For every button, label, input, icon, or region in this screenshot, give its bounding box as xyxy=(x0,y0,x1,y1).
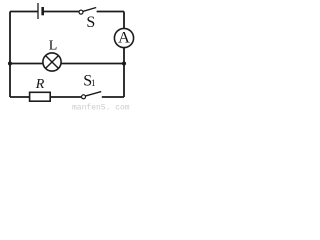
svg-text:manfen5. com: manfen5. com xyxy=(72,103,130,111)
svg-text:L: L xyxy=(49,39,58,54)
svg-text:S: S xyxy=(86,14,95,31)
svg-text:1: 1 xyxy=(91,78,96,88)
svg-text:A: A xyxy=(118,28,130,47)
svg-text:R: R xyxy=(35,77,45,92)
